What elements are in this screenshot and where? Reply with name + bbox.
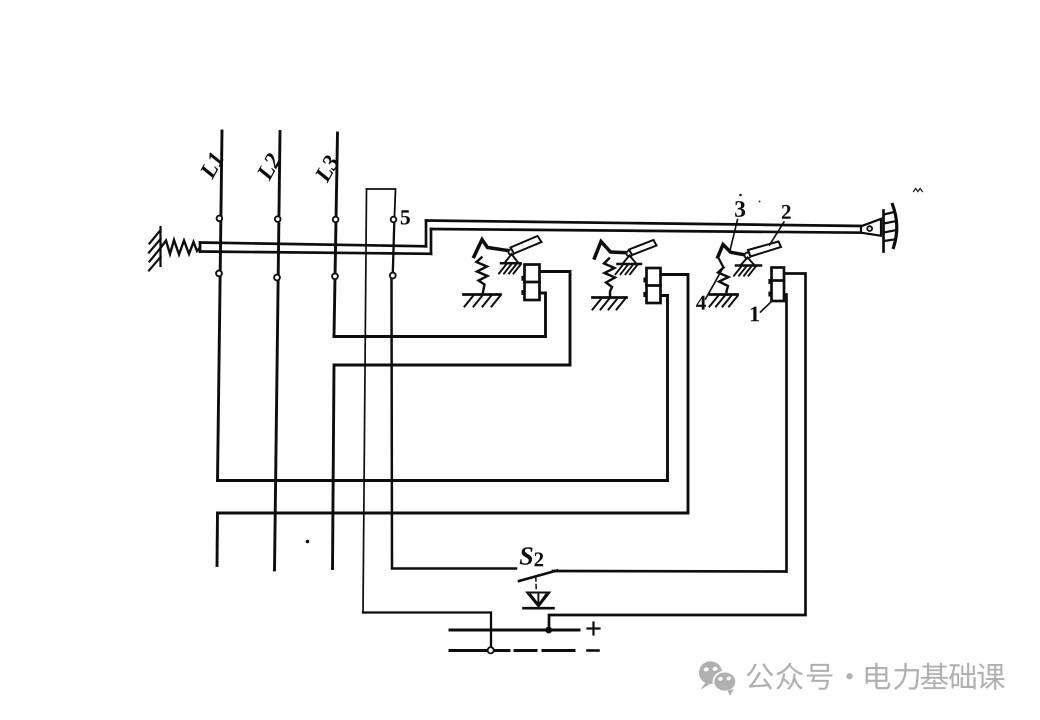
label 5 [401,210,410,224]
right wall anchor bar [882,211,885,252]
wire stub below L1 corner [216,513,219,566]
contact circle 5 lower [390,273,396,279]
label S2 [520,547,533,564]
unit 3 link arm to rod [748,242,781,257]
wire: unit2 lower terminal to L1 [218,296,668,481]
mechanism unit 1: lever [464,236,542,307]
switch S2 blade [519,571,557,582]
watermark wechat icon small bubble [714,672,737,692]
unit 3 ground [710,295,738,307]
wire: bottom left horizontal to minus terminal [363,613,491,648]
scan squiggle [914,189,923,192]
scan speck [739,194,742,197]
label 3 [735,201,745,217]
wire: unit2 upper terminal loop [218,275,689,514]
phase line L2 [275,132,281,571]
right wall anchor hatching [884,212,894,241]
label L1 [199,152,224,180]
contact circle L2 lower [274,275,280,281]
minus label [588,649,599,652]
mechanism unit 2: lever [593,240,661,310]
contact circle L3 upper [333,217,339,223]
unit 1 pivot mount with hatching [499,254,521,274]
wire: unit3 lower terminal to switch S2 [553,295,787,572]
leader line for label 1 [761,301,773,313]
watermark text [746,663,773,689]
unit 2 auxiliary contact block [643,268,660,303]
contact circle L2 upper [275,216,281,222]
unit 2 spring [604,259,615,298]
operating rod [200,221,862,254]
left wall anchor [149,227,161,271]
gate frame above line 5 [367,189,396,216]
label 1 [751,307,759,322]
rod end clevis [861,219,881,236]
wire: S2 left to line 5 [392,278,517,569]
thin vertical wire from gate to bottom [363,189,367,613]
clevis pin [867,226,872,231]
label 4 [696,296,706,310]
scan speck [759,201,761,203]
unit 3 spring [718,268,729,295]
stray ink mark [306,540,310,544]
unit 3 pivot [745,253,751,259]
unit 1 pivot [509,249,515,255]
leader line for label 4 [706,271,722,300]
terminal circle on - wire [488,647,494,653]
wire: L3 to unit1 lower terminal [334,293,546,337]
label L2 [256,152,282,181]
unit 2 pivot mount with hatching [616,256,642,275]
unit 2 ground [593,298,627,310]
leader line for label 2 [770,222,785,245]
contact circle 5 upper [391,217,397,223]
unit 1 spring [477,258,488,295]
leader line for label 3 [730,220,738,253]
wire: unit1 upper terminal loop [333,272,571,569]
unit 1 auxiliary contact block [521,265,539,301]
label 2 [782,205,791,219]
line 5 through rod [393,222,395,273]
contact circle L1 lower [216,271,222,277]
battery negative plate (broken scan) [450,649,574,652]
phase line L3 upper part [334,133,338,337]
watermark wechat icon big bubble [699,661,722,684]
switch S2 link (dashed) [535,577,538,592]
unit 1 ground [464,295,501,307]
mechanism unit 3: lever [710,242,785,307]
unit 2 link arm to rod [629,240,657,255]
unit 2 pivot [627,251,633,257]
signal horn symbol [524,593,554,609]
battery positive plate [450,629,579,632]
right wall anchor bracket [893,205,897,248]
unit 1 link arm to rod [511,236,542,254]
junction dot on + wire [545,627,552,634]
unit 3 auxiliary contact block [768,268,784,302]
label L3 [314,154,340,183]
phase line L1 [218,131,223,481]
return spring (left) [161,240,201,255]
contact circle L3 lower [332,273,338,279]
unit 3 pivot mount with hatching [734,258,761,276]
contact circle L1 upper [217,216,223,222]
plus label [588,623,600,635]
wire: unit3 upper terminal to + battery [549,274,806,631]
